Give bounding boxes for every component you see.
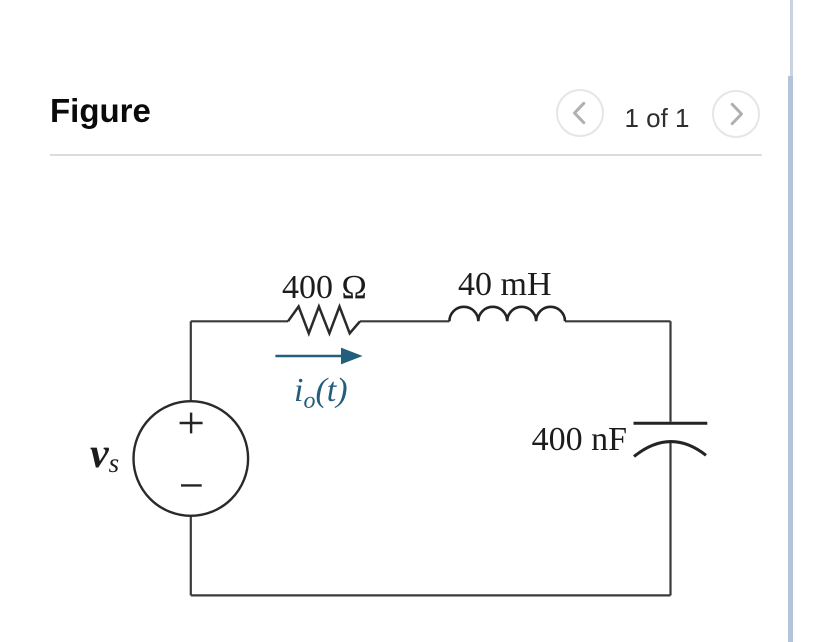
svg-text:vs: vs <box>90 431 119 478</box>
svg-text:40 mH: 40 mH <box>458 266 552 303</box>
svg-text:400 Ω: 400 Ω <box>282 269 367 306</box>
svg-text:io(t): io(t) <box>294 372 348 414</box>
svg-text:400 nF: 400 nF <box>532 421 627 458</box>
